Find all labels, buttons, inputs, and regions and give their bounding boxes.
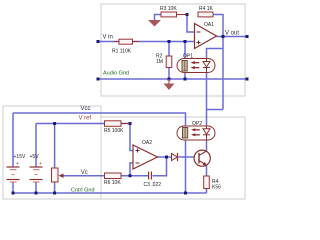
resistor R4 1K [198, 12, 213, 17]
wire C3 right to output node [153, 157, 167, 176]
wire OP2 LED cathode to collector [206, 140, 208, 151]
node audio gnd terminal right [246, 78, 249, 81]
optocoupler OP1 [177, 59, 215, 73]
wire R2 bottom lead [168, 68, 170, 80]
OP2 LED [203, 126, 210, 140]
svg-text:+: + [39, 161, 42, 167]
node OA2 output C3 [165, 156, 168, 159]
section box: control (bottom right) [101, 117, 245, 199]
optocoupler OP2 [177, 126, 215, 140]
svg-text:Vcc: Vcc [81, 106, 91, 112]
svg-text:R1 110K: R1 110K [112, 49, 132, 55]
wire +15V battery top [12, 113, 14, 167]
svg-text:Audio Gnd: Audio Gnd [103, 71, 129, 77]
battery +5V [30, 167, 43, 180]
OP1 LED [203, 59, 210, 73]
wire R6 to C3 node [121, 175, 148, 177]
svg-text:R6 10K: R6 10K [104, 180, 121, 186]
node V in terminal [97, 40, 100, 43]
op-amp OA2 [133, 145, 158, 169]
wire OP1 LED cathode down across audio gnd to jog2 [206, 73, 208, 110]
node V out feedback [222, 35, 225, 38]
wire V in line [98, 41, 195, 43]
wire Vc node up to OA2 - input [130, 163, 133, 176]
svg-text:V in: V in [103, 34, 113, 40]
svg-text:R3 10K: R3 10K [160, 6, 177, 12]
node R2 top [168, 40, 171, 43]
wire Vcc line [13, 113, 186, 128]
svg-text:C3 .022: C3 .022 [144, 182, 162, 188]
transistor Q1 [194, 150, 210, 166]
wire R4b bottom [206, 189, 208, 194]
potentiometer (Vc pot) [52, 168, 59, 182]
battery +15V [7, 167, 20, 180]
node pot gnd [53, 192, 56, 195]
capacitor C3 .022 [149, 172, 152, 180]
wire emitter down to R4b [206, 166, 208, 177]
wire OP1 LDR top lead [184, 42, 186, 61]
node V out terminal [246, 35, 249, 38]
node R2 bottom gnd [168, 78, 171, 81]
wire R2 top lead [168, 42, 170, 57]
node OP2 LDR gnd [184, 192, 187, 195]
svg-text:+5V: +5V [30, 154, 40, 160]
wire pot top [54, 124, 56, 169]
OP1 arrows [191, 61, 200, 69]
section box: audio (top) [101, 4, 245, 96]
svg-text:OA1: OA1 [204, 22, 214, 28]
svg-text:R4 1K: R4 1K [199, 6, 214, 12]
wire R4 right to V out (feedback) [213, 15, 223, 37]
resistor R2 1M (vertical) [166, 56, 172, 68]
wire jog1 to OP1 LED anode [207, 49, 224, 59]
resistor R5 100K [105, 121, 122, 127]
diode D1 [172, 154, 178, 161]
wire V out line [217, 36, 248, 38]
node V ref R5 right [129, 122, 132, 125]
node V ref pot [53, 122, 56, 125]
wire pot bottom [54, 182, 56, 193]
wire jog2 to OP2 LED anode [207, 110, 224, 127]
wire R3-R4 junction down to OA1 inverting input [187, 15, 195, 33]
svg-text:+15V: +15V [14, 154, 26, 160]
svg-text:Vc: Vc [81, 170, 88, 176]
node bat5 gnd [35, 192, 38, 195]
ground (audio, left of R3) [148, 20, 161, 27]
wire V ref down to OA2 + input [130, 124, 133, 151]
wire OA2 output to diode [158, 156, 172, 158]
node audio gnd terminal left [97, 78, 100, 81]
svg-text:OP1: OP1 [183, 54, 193, 60]
svg-text:K56: K56 [212, 185, 221, 191]
node OP1 LDR bottom gnd [184, 78, 187, 81]
wire +5V battery bottom [35, 182, 37, 193]
wire +15V battery bottom [12, 182, 14, 193]
OP2 LDR body [183, 128, 188, 139]
ground (audio gnd arrow below R2) [168, 79, 170, 84]
svg-text:V ref: V ref [79, 115, 92, 121]
resistor R4 K56 (vertical) [204, 176, 210, 189]
svg-text:V out: V out [225, 31, 239, 37]
svg-text:R5 100K: R5 100K [104, 128, 124, 134]
wire +5V battery top [35, 124, 37, 167]
OP1 LDR body [182, 61, 187, 72]
svg-text:Cntrl Gnd: Cntrl Gnd [71, 188, 95, 194]
svg-text:OP2: OP2 [192, 121, 202, 127]
node R3-R4 junction [186, 13, 189, 16]
svg-text:OA2: OA2 [142, 140, 152, 146]
resistor R6 10K [105, 173, 122, 179]
section box: power (bottom left) [3, 106, 101, 199]
resistor R3 10K [161, 12, 177, 17]
wire V ref line [36, 123, 130, 125]
svg-text:1M: 1M [156, 59, 163, 65]
wire diode to transistor base [179, 156, 195, 158]
svg-text:+: + [16, 161, 19, 167]
wire control gnd line [13, 192, 207, 194]
op-amp OA1 [195, 24, 217, 49]
node bat15 gnd [12, 192, 15, 195]
resistor R1 110K [119, 39, 133, 44]
wire Vc line (pot wiper to R6) [63, 175, 105, 177]
wire V out node down to jog2 [222, 37, 224, 110]
wire audio gnd line [98, 78, 247, 80]
wire OP2 LDR bottom to cntrl gnd [185, 139, 187, 194]
wire R3 to ground [155, 15, 162, 21]
node Vc R6 right [129, 174, 132, 177]
node OP1 LDR top [184, 40, 187, 43]
OP2 arrows [191, 128, 200, 136]
wire OP1 LDR bottom lead [184, 71, 186, 79]
